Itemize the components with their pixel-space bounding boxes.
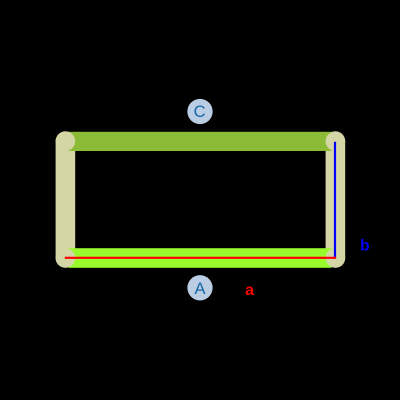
corner cap bottom-right [326, 248, 346, 268]
right side bar (tan, rounded caps) [326, 131, 346, 267]
svg-text:b: b [360, 238, 369, 255]
node C badge circle [187, 99, 212, 124]
bottom side bar (bright yellow-green) [68, 248, 331, 268]
left side bar (tan, rounded caps) [56, 131, 76, 267]
corner cap top-right [326, 131, 346, 151]
svg-text:a: a [245, 282, 254, 299]
svg-text:A: A [194, 280, 205, 298]
top side bar (olive green) [68, 132, 331, 151]
vector b line (blue, right side) [334, 142, 336, 258]
svg-text:C: C [194, 103, 206, 121]
corner cap bottom-left [56, 248, 76, 268]
corner cap top-left [56, 131, 76, 151]
vector a line (red, bottom side) [65, 257, 336, 259]
node A badge circle [187, 275, 212, 300]
